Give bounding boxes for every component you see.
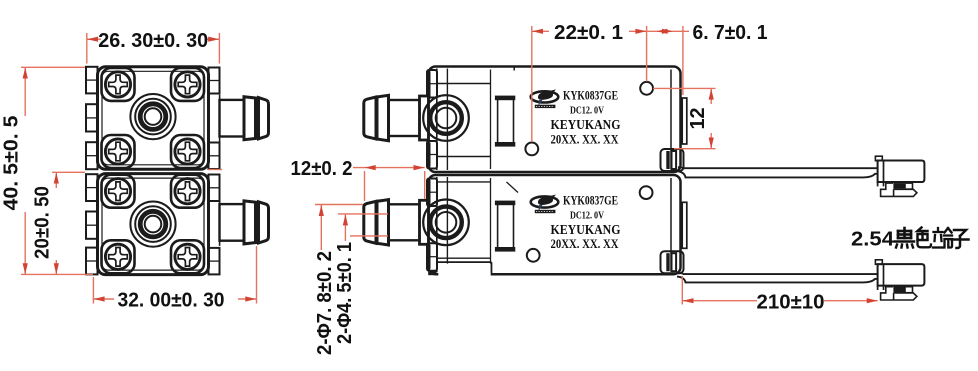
valve unit B front: four phillips screws [105, 179, 200, 270]
solenoid unit A side: brand logo [531, 89, 559, 108]
mount tab left 1 [86, 67, 98, 94]
solenoid unit B side: wire clamp bracket [661, 251, 684, 273]
extension tick at unit boundary [208, 169, 222, 171]
svg-text:20XX. XX. XX: 20XX. XX. XX [551, 133, 619, 147]
dimension 12±0.2 (barb length) [291, 157, 425, 201]
solenoid unit B side: port boss circle [423, 200, 469, 246]
dimension 12 (hole to wire exit) [653, 88, 716, 148]
valve unit B front: central port concentric rings [130, 202, 175, 247]
mount tab right 4 [209, 248, 220, 275]
mount tab right 1 [209, 68, 220, 94]
dimension 20±0.50 (unit B height) [31, 172, 86, 274]
svg-text:20±0. 50: 20±0. 50 [31, 186, 54, 259]
mount tab right 2 [209, 143, 220, 170]
valve unit A front: body front square [98, 67, 209, 170]
svg-text:12±0. 2: 12±0. 2 [291, 157, 353, 180]
mount tab left 6 [86, 248, 98, 275]
wire lead A [677, 167, 877, 177]
solenoid unit B side: side rib [682, 202, 687, 248]
unit boundary step [513, 66, 515, 71]
solenoid unit A side: side rib [682, 98, 687, 144]
svg-text:20XX. XX. XX: 20XX. XX. XX [551, 237, 619, 251]
dimension 6.7±0.1 [647, 21, 768, 95]
svg-text:210±10: 210±10 [757, 290, 825, 313]
svg-text:26. 30±0. 30: 26. 30±0. 30 [98, 29, 208, 52]
dimension 210±10 (wire length) [682, 276, 877, 313]
mount tab left 4 [86, 174, 98, 201]
valve unit A front: four phillips screws [105, 72, 200, 164]
dimension 2-Φ4.5±0.1 (neck leader) [333, 214, 388, 344]
solenoid unit A side: wire clamp bracket [661, 149, 684, 171]
solenoid unit A side: flange tabs [427, 70, 437, 169]
svg-text:2-Φ4. 5±0. 1: 2-Φ4. 5±0. 1 [333, 242, 356, 344]
mount tab left 2 [86, 104, 98, 131]
solenoid unit A side: mounting slot [495, 96, 515, 147]
valve unit B front: body front square [98, 174, 209, 275]
mount tab left 5 [86, 212, 98, 239]
svg-text:KYK0837GE: KYK0837GE [563, 194, 618, 208]
valve unit A front: central port concentric rings [130, 94, 175, 139]
terminal connector B [875, 260, 924, 300]
svg-text:6. 7±0. 1: 6. 7±0. 1 [693, 21, 768, 44]
solenoid unit B side: flange tabs [427, 179, 437, 271]
valve unit B front: corner screw bosses [102, 175, 205, 274]
svg-text:KEYUKANG: KEYUKANG [551, 223, 621, 238]
solenoid unit B side: label holes [527, 186, 653, 262]
solenoid unit A side: label text [551, 89, 621, 147]
dimension 2-Φ7.8±0.2 (barb OD leader) [313, 205, 363, 356]
terminal connector A [875, 156, 924, 196]
svg-text:2.54: 2.54 [851, 228, 895, 251]
label 2.54黑色端子 (2.54 black terminal) [851, 228, 969, 251]
dimension 26.30±0.30 (top width) [87, 29, 220, 64]
unit B lower-left frame notch [428, 262, 491, 278]
svg-text:KEYUKANG: KEYUKANG [551, 118, 621, 133]
svg-text:KYK0837GE: KYK0837GE [563, 89, 618, 103]
wire lead B [677, 273, 877, 283]
solenoid unit A side: barb hose port side view [364, 95, 429, 140]
hose barb port A (front view) [220, 95, 269, 142]
dimension 32.00±0.30 (bottom width incl. barb) [93, 246, 256, 312]
svg-text:32. 00±0. 30: 32. 00±0. 30 [118, 289, 225, 312]
solenoid unit A side: body side outline [429, 67, 681, 173]
dimension 40.5±0.5 (total height) [0, 67, 93, 274]
svg-text:12: 12 [686, 108, 709, 130]
mount tab right 3 [209, 175, 220, 202]
solenoid unit A side: label holes [525, 82, 653, 155]
valve unit A front: corner screw bosses [102, 68, 205, 168]
svg-text:DC12. 0V: DC12. 0V [570, 210, 604, 222]
unit B sticker corner chamfer [507, 182, 519, 193]
solenoid unit B side: brand logo [531, 195, 559, 214]
solenoid unit B side: mounting slot [495, 201, 515, 252]
svg-text:DC12. 0V: DC12. 0V [570, 105, 604, 117]
svg-text:22±0. 1: 22±0. 1 [554, 21, 623, 44]
svg-text:40. 5±0. 5: 40. 5±0. 5 [0, 116, 23, 211]
dimension 22±0.1 (hole spacing) [532, 21, 647, 142]
solenoid unit A side: port boss circle [423, 95, 469, 141]
mount tab left 3 [86, 142, 98, 169]
solenoid unit B side: body side outline [429, 175, 681, 274]
solenoid unit B side: label text [551, 194, 621, 252]
hose barb port B (front view) [220, 199, 269, 246]
solenoid unit B side: barb hose port side view [364, 200, 429, 245]
